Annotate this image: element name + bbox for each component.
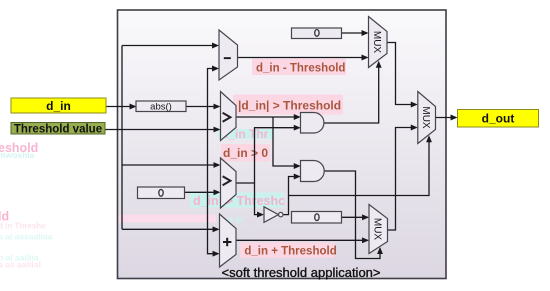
wire abs to comp1 in1 <box>186 106 219 108</box>
wire const0 left to comp2 in2 <box>185 191 219 193</box>
zero top <box>315 30 319 37</box>
wire comp2 out to inverter <box>236 183 262 215</box>
adder block <box>220 214 237 267</box>
gt sign comp2 <box>223 176 231 185</box>
d_out port box <box>458 110 539 128</box>
const0 top box <box>292 28 342 39</box>
block symbols <box>150 30 431 247</box>
wire threshold riser bus <box>208 69 218 130</box>
svg-text:d_in - Threshold: d_in - Threshold <box>256 62 345 74</box>
wire threshold entry to comp1 in2 <box>105 129 219 131</box>
svg-text:Threshold value: Threshold value <box>14 123 102 135</box>
wire const0 bottom to MUX3 in1 <box>342 216 368 218</box>
wire NOT select line to MUX2 select <box>289 137 430 196</box>
wire AND2 out to MUX3 select <box>324 171 380 259</box>
wire MUX2 out to d_out <box>436 117 456 119</box>
svg-text:<soft threshold application>: <soft threshold application> <box>222 265 381 280</box>
wire d_in to add in1 <box>122 228 218 230</box>
svg-text:|d_in| > Threshold: |d_in| > Threshold <box>238 99 341 113</box>
gt sign comp1 <box>223 113 231 122</box>
outer box <box>118 10 447 279</box>
ghost pink band bottom left <box>119 215 217 223</box>
svg-text:d_in: d_in <box>46 99 71 113</box>
MUX2 <box>418 92 436 144</box>
svg-text:d_in + Threshold: d_in + Threshold <box>244 246 336 258</box>
wire d_in box to abs <box>106 106 135 108</box>
comparator comp1 <box>221 92 237 141</box>
wire sub out to MUX1 in2 <box>238 57 367 59</box>
wire d_in vertical bus <box>121 46 123 230</box>
wire const0 top to MUX1 in1 <box>342 32 367 34</box>
abs box <box>136 101 186 112</box>
MUX3 <box>369 205 388 254</box>
wire AND1 out to MUX1 select <box>324 63 378 124</box>
svg-text:d in Thresho: d in Thresho <box>0 221 46 230</box>
wire add out to MUX3 in2 <box>237 239 368 241</box>
AND gate 2 <box>301 161 325 182</box>
wire comp1 branch to AND2 in1 <box>273 117 299 166</box>
label bg: d_in > 0 <box>221 144 270 162</box>
zero bottom <box>315 214 319 221</box>
ghost teal band + pink text near comp2 <box>190 193 284 208</box>
subtract block <box>219 30 238 80</box>
ghost teal band + pink text under comp1 <box>218 129 273 139</box>
d_in port box <box>11 98 106 113</box>
inverter <box>264 207 278 223</box>
plus sign in add <box>223 241 231 243</box>
comparator comp2 <box>221 158 237 208</box>
label bg: d_in - Threshold <box>252 59 346 76</box>
svg-text:MUX: MUX <box>371 31 382 54</box>
svg-text:a al aasaaliaa: a al aasaaliaa <box>0 231 53 241</box>
const0 left box <box>138 187 185 199</box>
wire MUX3 out to MUX2 in2 <box>388 128 417 231</box>
zero left <box>159 189 163 196</box>
label bg: d_in + Threshold <box>240 242 335 258</box>
svg-text:mwoshla: mwoshla <box>0 150 35 160</box>
AND gate 1 <box>301 113 324 134</box>
ghost text ld (left margin) <box>0 210 53 270</box>
svg-text:MUX: MUX <box>372 218 383 241</box>
wire d_in to sub in1 <box>122 45 217 47</box>
wire MUX1 out to MUX2 in1 <box>387 43 416 105</box>
ghost text eshold (left margin) <box>0 141 38 160</box>
const0 bottom box <box>292 212 342 224</box>
svg-text:d_in > 0: d_in > 0 <box>223 146 268 160</box>
label bg: |d_in| > Threshold <box>233 95 343 115</box>
svg-text:d_out: d_out <box>482 112 515 126</box>
wire threshold riser to add in2 <box>208 130 218 254</box>
MUX1 <box>369 17 388 68</box>
wire inverter out to AND2 in2 <box>283 177 299 215</box>
component shapes <box>136 17 436 268</box>
wire comp2 branch up to AND1 in2 <box>255 128 300 183</box>
svg-text:d_in| > Threshc: d_in| > Threshc <box>193 194 285 208</box>
svg-text:abs(): abs() <box>150 102 172 113</box>
svg-text:a as aaltial: a as aaltial <box>0 259 41 269</box>
svg-text:MUX: MUX <box>420 106 431 129</box>
Threshold value port box <box>11 123 105 135</box>
wire comp1 out to AND1 in1 <box>236 116 299 118</box>
wire d_in to comp2 in1 <box>122 164 219 166</box>
minus sign in sub <box>224 57 231 59</box>
